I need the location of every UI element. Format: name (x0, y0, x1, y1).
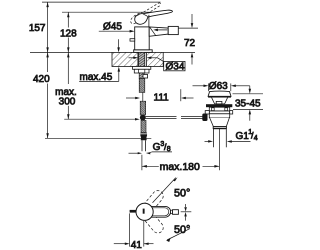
rod guide clip (143, 75, 148, 79)
bayonet slots (212, 108, 215, 111)
pop-up rod ball faucet end (140, 115, 146, 121)
top view: inner outline (146, 208, 169, 216)
drain pop-up waste: plug cap (208, 91, 231, 96)
svg-text:Ø34: Ø34 (166, 61, 185, 72)
drain side tab right (230, 111, 233, 114)
svg-text:111: 111 (154, 93, 170, 104)
top view: dashed lever rotated down 50 (140, 208, 165, 235)
dimension 72 line (179, 14, 199, 65)
svg-text:157: 157 (29, 23, 46, 34)
spout (149, 27, 168, 36)
svg-text:72: 72 (184, 38, 196, 49)
lever inner detail (143, 14, 148, 17)
spout seam (150, 27, 156, 36)
top view: aerator neck (171, 210, 173, 213)
angle 50 upper: leader along rotated axis (153, 177, 187, 211)
svg-text:Ø63: Ø63 (209, 81, 228, 92)
drain taper (210, 118, 230, 127)
top view: pop-up knob tab (130, 210, 136, 213)
extension line hose end (420 ref) (45, 137, 151, 139)
shank stub below nut (139, 73, 144, 79)
top view: aerator (173, 210, 179, 215)
svg-text:G: G (153, 142, 161, 153)
raised lever dashed (131, 3, 161, 24)
arrow deck surface marker (117, 39, 120, 52)
deck surface line (30, 51, 195, 53)
dimension Ø34 arrows (129, 57, 164, 62)
hose centerline stub (142, 92, 144, 101)
extension line to pop-up rod ball (max.300 ref) (64, 118, 140, 121)
extension line top of lever (128 ref) (62, 11, 151, 13)
svg-text:50°: 50° (174, 187, 190, 199)
threaded shank through deck (139, 52, 145, 66)
aerator (168, 26, 178, 34)
dimension 35-45 (233, 86, 264, 121)
tailpipe thread lines (214, 129, 227, 148)
dimension 111 (126, 89, 194, 101)
washer (133, 67, 151, 70)
top view: pivot bar (143, 209, 145, 214)
spout axis extension line (181, 211, 192, 213)
drain upper body (209, 107, 229, 111)
lever handle (135, 10, 173, 24)
mounting nut (134, 69, 149, 73)
svg-text:max.180: max.180 (160, 161, 200, 173)
drain neck (212, 98, 228, 104)
tailpipe centerline (218, 129, 220, 171)
svg-text:300: 300 (59, 97, 76, 108)
svg-text:35-45: 35-45 (235, 99, 261, 110)
dimension 157 line (46, 2, 49, 52)
svg-text:G1: G1 (236, 131, 250, 142)
svg-text:128: 128 (60, 28, 77, 39)
svg-text:41: 41 (131, 240, 143, 250)
dimension 128 line (67, 12, 70, 52)
drain Ø63 dimension (193, 83, 250, 91)
drain side tab left (205, 111, 209, 114)
extension line top of raised lever (157 ref) (42, 1, 161, 3)
faucet body (134, 27, 153, 52)
max.180 left extension line (141, 155, 143, 171)
pipe collar (213, 127, 226, 129)
svg-text:420: 420 (33, 74, 50, 85)
dimension max.300 line (67, 52, 70, 119)
drain flange seal band (206, 104, 232, 107)
supply hose lower braided (140, 101, 146, 115)
hose below rod (141, 120, 146, 132)
svg-text:4: 4 (254, 135, 258, 142)
label Ø34 boxed (164, 61, 185, 70)
dimension max.180 (142, 165, 220, 168)
dimension 420 line (46, 52, 49, 138)
lever pivot line (148, 15, 150, 27)
hose fitting (140, 133, 147, 135)
pop-up knob (side) (130, 39, 135, 41)
top view: lever/spout solid (145, 206, 171, 217)
flow arrow in spout (153, 29, 167, 32)
deck slab hatched (112, 52, 138, 66)
G3/8 nipple (142, 140, 145, 151)
drain lower band (209, 114, 229, 118)
top view: body circle (136, 203, 153, 220)
drain mid band (209, 111, 229, 114)
top view: dashed lever rotated up 50 (140, 188, 165, 215)
dimension 41 (114, 213, 154, 246)
rod ball joint drain end (202, 114, 207, 122)
pop-up rod (146, 116, 203, 118)
supply hose upper braided (139, 79, 145, 93)
svg-text:50°: 50° (174, 224, 190, 236)
drain stem (216, 101, 222, 104)
angle 50 lower: leader along rotated axis (166, 212, 190, 242)
